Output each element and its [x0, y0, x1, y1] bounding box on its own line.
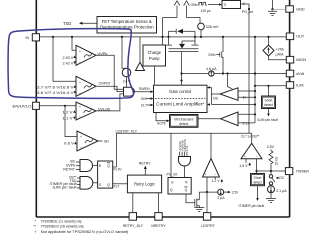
svg-text:LDSTRT_FLT: LDSTRT_FLT: [116, 129, 138, 133]
svg-text:SCPb: SCPb: [157, 122, 166, 126]
svg-text:Gate control: Gate control: [169, 89, 191, 94]
border right edge: [289, 0, 291, 217]
svg-text:−: −: [79, 91, 81, 95]
wire OC feed vertical: [226, 72, 232, 89]
svg-text:PG_int: PG_int: [242, 10, 253, 14]
wire LDSTRT node line: [199, 191, 217, 193]
pin OUT: [286, 33, 305, 40]
ref OVP falling: [37, 91, 76, 95]
resistor 22 kOhm: [269, 150, 279, 172]
wire IN bus: [40, 36, 287, 38]
wire EN down to SD: [65, 106, 77, 137]
svg-text:2 μA: 2 μA: [217, 196, 225, 200]
svg-text:2.53 V: 2.53 V: [63, 56, 74, 60]
svg-text:dVdt: dVdt: [296, 72, 305, 76]
node rail A ILIM: [254, 85, 256, 87]
svg-text:NRETRY: NRETRY: [151, 224, 166, 228]
svg-text:−: −: [79, 115, 81, 119]
node bus clamp tap: [121, 36, 123, 38]
svg-text:1.1 V: 1.1 V: [63, 117, 74, 121]
box FET Temperature Sense: [97, 17, 157, 34]
node GHb on gate line: [222, 72, 224, 74]
wire FLTb: [113, 167, 122, 172]
node bus rail A: [254, 36, 256, 38]
ground LDSTRT FET: [194, 208, 204, 212]
amplifier 2.1x: [221, 112, 250, 126]
border left edge: [35, 0, 37, 217]
svg-text:Pump: Pump: [149, 56, 160, 61]
ref 0.6 V: [64, 142, 77, 146]
svg-text:Q: Q: [170, 188, 173, 192]
TSD label and arrow: [63, 21, 97, 26]
current source 2.1 uA: [268, 185, 288, 193]
svg-text:FLTb: FLTb: [114, 168, 122, 172]
current mirror diamond +246 uA/A: [263, 37, 284, 56]
svg-text:Short: Short: [254, 176, 262, 180]
svg-text:+: +: [244, 155, 246, 159]
and-gate fault set: [50, 176, 98, 190]
svg-text:326 mV: 326 mV: [206, 25, 220, 29]
svg-text:μA/A: μA/A: [276, 52, 284, 56]
svg-text:2.1x: 2.1x: [243, 122, 250, 126]
node bus FET drain: [167, 36, 169, 38]
svg-text:GHb: GHb: [191, 3, 198, 7]
pin dVdt: [286, 70, 305, 77]
svg-text:CL* or CB**: CL* or CB**: [241, 135, 260, 139]
ref 1.1 V: [63, 117, 76, 121]
svg-text:FLT: FLT: [114, 184, 121, 188]
pin RETRY_DLY: [123, 213, 144, 228]
transistor main power FET: [165, 37, 199, 85]
switch OC: [269, 171, 284, 185]
svg-text:4.6 μA: 4.6 μA: [206, 67, 217, 71]
svg-text:OC: OC: [213, 96, 219, 100]
node bus charge pump: [161, 36, 163, 38]
node bus OVPb tap: [52, 36, 54, 38]
ground ITIMER: [266, 193, 276, 203]
svg-text:GHb: GHb: [208, 53, 215, 57]
svg-text:TPS25982xO (CB variants) only: TPS25982xO (CB variants) only: [41, 225, 84, 229]
deglitch GHb 120us: [191, 1, 254, 14]
label RETRY output: [139, 162, 151, 175]
rail A OUT sense vertical: [254, 37, 256, 123]
svg-text:ILIM pin fault: ILIM pin fault: [53, 185, 77, 189]
svg-text:VIN transient: VIN transient: [174, 117, 193, 121]
blue annotation highlight: [8, 29, 133, 99]
wire CL comp to ITIMER node: [256, 159, 258, 171]
label GHI input: [141, 97, 154, 101]
comparator LDSTRT: [203, 159, 220, 178]
svg-text:+: +: [205, 173, 207, 177]
svg-text:3.6 V/7.4 V/16.4 V: 3.6 V/7.4 V/16.4 V: [37, 91, 74, 95]
svg-text:2.1 μA: 2.1 μA: [276, 189, 287, 193]
svg-text:ITIMER pin fault: ITIMER pin fault: [239, 204, 265, 208]
current source 2 uA: [217, 189, 239, 200]
svg-text:FET Temperature Sense &: FET Temperature Sense &: [102, 19, 152, 24]
pin ITIMER: [285, 168, 309, 175]
wire OC inputs to rail: [238, 90, 256, 99]
svg-text:OUT: OUT: [296, 35, 305, 39]
svg-text:SD: SD: [104, 140, 109, 144]
voltage clamp 3.6 V: [122, 37, 131, 87]
comparator UVPb: [76, 45, 107, 65]
box VIN transient detect: [170, 115, 199, 128]
svg-text:EN/UVLO: EN/UVLO: [13, 105, 32, 109]
ref OVP rising: [37, 85, 76, 90]
svg-text:2.5V: 2.5V: [267, 145, 275, 149]
wire gate line to dVdt: [182, 73, 287, 75]
node bus IMON mirror: [267, 36, 269, 38]
wire retry to NRETRY: [158, 193, 160, 213]
pin IMON: [286, 56, 306, 63]
pin ILIM: [286, 82, 303, 89]
pin EN/UVLO: [13, 102, 40, 109]
wire UVLOb output to SWEN gate: [96, 94, 124, 111]
comparator UVLOb: [76, 102, 110, 120]
svg-text:2.42 V: 2.42 V: [63, 61, 74, 65]
ground top: [268, 0, 286, 16]
wire top arrow right to 326mV: [184, 1, 200, 24]
svg-text:+: +: [79, 49, 81, 53]
svg-text:Q: Q: [185, 188, 188, 192]
svg-text:S: S: [224, 3, 226, 7]
svg-text:LDSTRT: LDSTRT: [201, 224, 215, 228]
svg-text:RETRY: RETRY: [63, 168, 75, 172]
wire EN to UVLOb: [39, 105, 76, 107]
wire PG_int vertical: [248, 9, 250, 133]
node bus GHb FET: [222, 36, 224, 38]
svg-text:Q: Q: [107, 164, 110, 168]
svg-text:ILIM: ILIM: [296, 83, 303, 87]
wire 2.1x inputs to rail: [238, 113, 256, 123]
svg-text:TSD: TSD: [63, 21, 71, 26]
pin IN: [26, 34, 40, 41]
svg-text:GHI: GHI: [141, 97, 147, 101]
wire FLT to retry logic: [113, 184, 128, 189]
comparator OC sense: [213, 88, 246, 101]
footnote 1: [35, 220, 82, 224]
footnote 2: [33, 225, 84, 229]
ref 2.42 V: [63, 61, 76, 65]
svg-text:†: †: [35, 230, 37, 234]
svg-text:Short: Short: [265, 99, 273, 103]
svg-text:3.7 V/7.6 V/16.9 V: 3.7 V/7.6 V/16.9 V: [37, 86, 74, 90]
svg-text:Not applicable for TPS259827x: Not applicable for TPS259827x (no-OVLO v…: [41, 230, 129, 234]
pin LDSTRT: [201, 213, 215, 228]
wire charge pump to gate control: [154, 66, 156, 85]
wire LDSTRT comp output vertical: [210, 133, 212, 158]
svg-text:Current Limit Amplifier*: Current Limit Amplifier*: [156, 102, 204, 107]
wire to LDSTRT pin: [206, 192, 208, 213]
op-amp internal regulator: [136, 37, 145, 71]
svg-text:1.2 V: 1.2 V: [63, 111, 74, 115]
svg-text:Retry Logic: Retry Logic: [134, 182, 155, 187]
svg-text:IMON: IMON: [296, 58, 306, 62]
svg-text:IN: IN: [26, 36, 30, 40]
ref 2.53 V: [63, 55, 76, 60]
svg-text:1.2 V: 1.2 V: [211, 179, 220, 183]
svg-text:RETRY: RETRY: [139, 162, 151, 166]
ref 1.5 V: [239, 159, 251, 168]
svg-text:OC: OC: [279, 176, 285, 180]
border bottom edge: [36, 216, 289, 218]
svg-text:ITIMER: ITIMER: [296, 170, 309, 174]
latch PG_int: [167, 133, 192, 194]
wire ILIM line: [255, 85, 286, 87]
svg-text:2.1F: 2.1F: [185, 145, 189, 151]
labels PG reset inputs: [178, 139, 189, 151]
voltage source 326 mV: [198, 23, 219, 37]
svg-text:−: −: [256, 155, 258, 159]
svg-text:UVLOb: UVLOb: [98, 108, 110, 112]
pin NRETRY: [151, 213, 166, 228]
svg-text:detect: detect: [179, 122, 188, 126]
box Gate control / Current Limit Amplifier: [154, 79, 208, 112]
ref 1.2 V LDSTRT: [211, 177, 223, 183]
box Short detect lower: [239, 171, 265, 208]
pin GND: [286, 6, 305, 12]
svg-text:+: +: [80, 135, 82, 139]
wire bus to OVPb input: [53, 37, 76, 81]
wire ITIMER node line: [255, 170, 285, 172]
transistor LDSTRT discharge FET: [186, 192, 199, 207]
svg-text:detect: detect: [264, 103, 273, 107]
wire LDSTRT_FLT line: [116, 129, 252, 133]
latch FLT: [98, 161, 113, 188]
and-gate SWEN: [124, 87, 135, 96]
diode body diode: [169, 29, 196, 37]
wire LDSTRT comp input: [206, 177, 208, 193]
comparator CL or CB: [241, 133, 262, 158]
svg-text:detect: detect: [253, 180, 262, 184]
wire retry to RETRY_DLY: [132, 193, 134, 213]
and-gate PG reset: [179, 152, 191, 178]
wire mirror to IMON: [269, 56, 287, 60]
svg-text:−: −: [80, 146, 82, 150]
box Charge Pump: [143, 45, 166, 66]
wire FLTb vertical: [115, 133, 117, 167]
svg-text:2.5V: 2.5V: [232, 190, 240, 194]
wire SCPb: [156, 113, 170, 126]
wire OC output to gate control: [207, 86, 256, 106]
label CL input: [141, 103, 154, 107]
svg-text:120 μs: 120 μs: [201, 9, 211, 13]
node bus 326mV: [200, 36, 202, 38]
node rail A dVdt: [254, 72, 256, 74]
transistor GHb pulldown FET: [208, 37, 223, 74]
svg-text:+: +: [79, 80, 81, 84]
svg-text:SWEN: SWEN: [139, 87, 150, 91]
svg-text:GND: GND: [296, 7, 305, 11]
box Retry Logic: [127, 175, 161, 193]
svg-text:1.5 V: 1.5 V: [239, 164, 248, 168]
label SWEN: [134, 87, 153, 93]
wire bus to UVPb input: [72, 37, 76, 50]
current source 4.6 uA: [206, 67, 217, 76]
comparator SD: [77, 131, 109, 151]
footnote 3: [35, 230, 129, 234]
node bus UVPb tap: [71, 36, 73, 38]
node gate line: [180, 72, 182, 74]
node bus FET source: [194, 36, 196, 38]
node short detect tap: [267, 85, 269, 87]
svg-text:+246: +246: [276, 47, 284, 51]
svg-text:Q: Q: [107, 183, 110, 187]
svg-text:ILIM pin fault: ILIM pin fault: [258, 118, 279, 122]
comparator OVPb: [76, 76, 111, 96]
svg-text:Charge: Charge: [147, 50, 161, 55]
svg-text:0.6 V: 0.6 V: [64, 142, 75, 146]
wire VIN transient to 2.1x: [198, 118, 221, 120]
svg-text:+: +: [79, 105, 81, 109]
svg-text:CL*: CL*: [141, 103, 148, 107]
svg-text:OVPb†: OVPb†: [99, 81, 111, 85]
wire UVPb output to SWEN gate: [96, 55, 124, 89]
and-gate fault release: [63, 160, 97, 172]
svg-text:PG_int: PG_int: [167, 173, 178, 177]
svg-text:−: −: [215, 173, 217, 177]
svg-text:22 kΩ: 22 kΩ: [275, 156, 279, 165]
ref 1.2 V: [63, 110, 76, 114]
wire top arrow left to charge pump: [163, 1, 180, 46]
wire OVPb output to SWEN gate: [96, 86, 124, 91]
svg-text:RETRY_DLY: RETRY_DLY: [123, 224, 144, 228]
box Short detect upper: [258, 86, 279, 122]
svg-text:TPS25982xL (CL variants) only: TPS25982xL (CL variants) only: [41, 220, 82, 224]
svg-text:−: −: [79, 60, 81, 64]
